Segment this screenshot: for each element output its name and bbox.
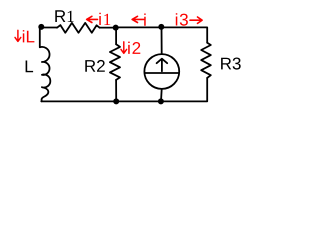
label iL: [23, 30, 35, 42]
arrow left i1: [87, 16, 98, 22]
arrow down i2: [121, 42, 127, 53]
label i1: [99, 13, 110, 25]
label R3: [221, 58, 241, 70]
arrow right i3: [190, 17, 202, 23]
wire R2 to bottom node: [115, 80, 117, 102]
arrow left i: [132, 16, 144, 22]
wire node B to node C: [116, 26, 162, 28]
wire node C to top-right corner: [161, 27, 207, 42]
wire bottom left: [41, 100, 116, 102]
label R1: [55, 10, 73, 22]
label L: [26, 61, 33, 73]
label i: [144, 14, 146, 26]
bottom node dot under source: [158, 98, 164, 104]
label i2: [128, 42, 140, 54]
wire top-left (node A to R1): [41, 27, 57, 29]
label i3: [176, 13, 188, 26]
bottom node dot under R2: [113, 98, 119, 104]
node A junction dot: [38, 24, 44, 30]
resistor R1: [57, 23, 100, 33]
current source chord: [145, 72, 180, 74]
wire node C down to current source: [161, 27, 163, 54]
wire node A down to inductor: [39, 28, 41, 48]
wire bottom middle: [116, 100, 161, 102]
current source circle: [144, 54, 179, 89]
current source arrow: [161, 60, 163, 71]
label R2: [85, 60, 105, 72]
node C junction dot: [158, 24, 164, 30]
resistor R3: [201, 43, 211, 78]
arrow down iL: [15, 30, 21, 41]
node B junction dot: [113, 25, 119, 31]
wire current source to bottom node: [160, 89, 163, 102]
wire R3 to bottom-right corner: [161, 78, 207, 102]
wire node B down to R2: [115, 28, 117, 45]
inductor L: [40, 47, 50, 101]
wire R1 to node B: [100, 27, 116, 29]
resistor R2: [110, 44, 120, 80]
